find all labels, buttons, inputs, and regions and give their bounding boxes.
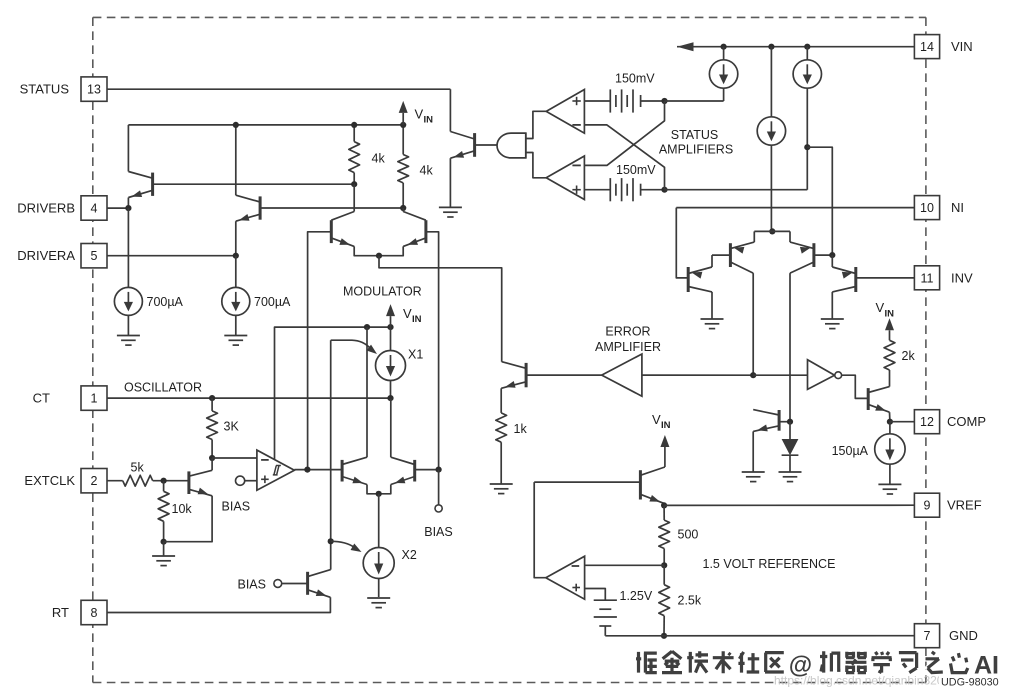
svg-text:9: 9 — [924, 499, 931, 513]
svg-text:700µA: 700µA — [147, 295, 184, 309]
svg-text:BIAS: BIAS — [238, 578, 267, 592]
svg-text:STATUS: STATUS — [20, 82, 70, 97]
svg-text:V: V — [415, 107, 424, 122]
svg-text:DRIVERA: DRIVERA — [17, 248, 75, 263]
svg-text:10: 10 — [920, 201, 934, 215]
svg-text:IN: IN — [885, 309, 895, 320]
svg-text:3K: 3K — [224, 420, 240, 434]
svg-text:V: V — [876, 300, 885, 315]
svg-text:13: 13 — [87, 83, 101, 97]
svg-text:11: 11 — [921, 271, 934, 285]
svg-text:IN: IN — [661, 420, 671, 431]
svg-text:AMPLIFIERS: AMPLIFIERS — [659, 143, 733, 157]
svg-text:ERROR: ERROR — [605, 325, 650, 339]
svg-text:BIAS: BIAS — [222, 500, 251, 514]
svg-text:VIN: VIN — [951, 39, 973, 54]
svg-text:STATUS: STATUS — [671, 128, 718, 142]
svg-text:EXTCLK: EXTCLK — [24, 473, 75, 488]
svg-text:AMPLIFIER: AMPLIFIER — [595, 340, 661, 354]
svg-text:COMP: COMP — [947, 414, 986, 429]
svg-text:MODULATOR: MODULATOR — [343, 285, 422, 299]
svg-text:IN: IN — [424, 115, 434, 126]
svg-text:7: 7 — [924, 629, 931, 643]
svg-text:GND: GND — [949, 628, 978, 643]
svg-text:VREF: VREF — [947, 498, 982, 513]
svg-text:150mV: 150mV — [616, 163, 656, 177]
svg-text:1.25V: 1.25V — [620, 589, 653, 603]
svg-text:2: 2 — [91, 474, 98, 488]
svg-text:RT: RT — [52, 605, 69, 620]
svg-text:12: 12 — [920, 415, 934, 429]
svg-text:X1: X1 — [408, 348, 423, 362]
svg-text:1.5 VOLT REFERENCE: 1.5 VOLT REFERENCE — [703, 557, 836, 571]
svg-text:BIAS: BIAS — [424, 525, 453, 539]
svg-text:V: V — [403, 306, 412, 321]
svg-text:CT: CT — [33, 391, 50, 406]
svg-text:V: V — [652, 412, 661, 427]
svg-text:150mV: 150mV — [615, 72, 655, 86]
svg-text:IN: IN — [412, 314, 422, 325]
svg-text:5: 5 — [91, 249, 98, 263]
svg-text:150µA: 150µA — [832, 444, 869, 458]
svg-text:10k: 10k — [172, 502, 193, 516]
svg-text:DRIVERB: DRIVERB — [17, 201, 75, 216]
svg-text:700µA: 700µA — [254, 295, 291, 309]
svg-text:4k: 4k — [372, 152, 386, 166]
svg-text:2k: 2k — [902, 349, 916, 363]
svg-text:8: 8 — [91, 606, 98, 620]
svg-text:1k: 1k — [514, 422, 528, 436]
svg-text:UDG-98030: UDG-98030 — [941, 677, 999, 689]
svg-text:4: 4 — [91, 202, 98, 216]
svg-text:5k: 5k — [131, 461, 145, 475]
svg-text:INV: INV — [951, 270, 973, 285]
svg-text:4k: 4k — [420, 164, 434, 178]
svg-text:OSCILLATOR: OSCILLATOR — [124, 381, 202, 395]
svg-text:X2: X2 — [402, 548, 417, 562]
svg-text:1: 1 — [91, 392, 98, 406]
svg-text:2.5k: 2.5k — [678, 594, 702, 608]
svg-text:14: 14 — [920, 40, 934, 54]
svg-text:NI: NI — [951, 200, 964, 215]
svg-text:500: 500 — [678, 528, 699, 542]
